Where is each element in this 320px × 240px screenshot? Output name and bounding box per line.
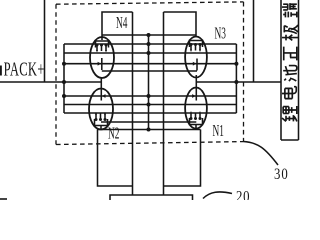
wire N1 stub to rail	[195, 125, 197, 130]
battery terminal label box	[281, 0, 299, 140]
left gate bus	[63, 44, 65, 113]
wire bar link y71	[102, 70, 197, 72]
wire bus level y96 (source line with FET arrows)	[64, 95, 236, 97]
top loop left (N4 drain link)	[102, 12, 133, 40]
svg-text:N2: N2	[108, 124, 120, 143]
vertical VC	[148, 35, 150, 130]
leader curve to label 20	[203, 192, 232, 199]
battery label char 池	[283, 66, 297, 81]
wire bus level y104.5	[64, 104, 236, 106]
bottom module box 20	[110, 195, 193, 200]
wire bus level y63.7 (source line with FET arrows)	[64, 63, 236, 65]
battery label char 电	[282, 87, 296, 99]
PACK+ terminal box	[0, 0, 45, 82]
junction dots	[62, 33, 238, 132]
vertical VR	[163, 12, 165, 195]
MOSFET N2	[89, 77, 113, 130]
svg-text:20: 20	[236, 188, 250, 200]
right gate bus	[235, 44, 237, 113]
top drain rail	[102, 34, 196, 36]
wire mid node right (battery node)	[196, 81, 281, 83]
battery label char 锂	[282, 106, 297, 121]
MOSFET N1	[185, 75, 207, 129]
wire N2 stub to rail	[100, 126, 102, 130]
bottom-left edge tick	[0, 198, 7, 200]
bottom source rail	[98, 129, 201, 131]
wire battery riser	[253, 0, 255, 82]
bottom left drop rectangle	[98, 130, 133, 187]
MOSFET N3	[185, 37, 207, 78]
wire bus level y44	[64, 43, 236, 45]
svg-text:N4: N4	[116, 13, 128, 32]
svg-text:N3: N3	[215, 24, 227, 43]
left edge tick artifact	[0, 66, 2, 76]
wire bus level y53	[64, 52, 236, 54]
vertical VL	[132, 12, 134, 195]
svg-text:PACK+: PACK+	[4, 57, 45, 80]
bottom right drop rectangle	[164, 130, 201, 187]
battery label char 极	[282, 25, 298, 40]
wire mid node left (PACK+ node)	[64, 81, 101, 83]
battery label char 端	[282, 3, 297, 17]
leader curve to label 30	[244, 142, 279, 166]
wire bus level y113	[64, 112, 236, 114]
top loop right (N3 drain link)	[164, 12, 197, 37]
dashed module boundary 30	[56, 2, 244, 145]
svg-text:N1: N1	[213, 121, 225, 140]
wire PACK+ to left bus	[45, 81, 65, 83]
MOSFET N4	[90, 37, 114, 78]
wire bar link y122	[101, 121, 196, 123]
svg-text:30: 30	[274, 166, 289, 184]
battery label char 正	[284, 47, 297, 61]
